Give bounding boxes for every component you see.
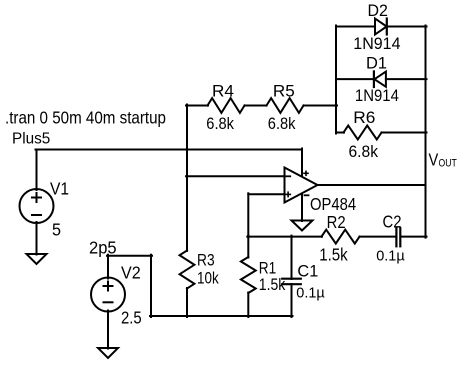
wire node A vertical (R4/R3/inverting input) xyxy=(186,105,188,252)
svg-text:R6: R6 xyxy=(353,108,375,127)
svg-text:V1: V1 xyxy=(50,179,69,199)
wire op-amp V+ drop xyxy=(301,149,303,176)
ground (V1) xyxy=(27,254,47,264)
resistor R1 xyxy=(241,257,256,293)
svg-text:R2: R2 xyxy=(327,212,346,232)
svg-text:.tran 0 50m 40m startup: .tran 0 50m 40m startup xyxy=(5,108,166,128)
svg-text:R3: R3 xyxy=(197,251,215,270)
wire V1 bottom lead xyxy=(36,222,38,255)
wire R4 left xyxy=(186,105,208,107)
svg-text:2p5: 2p5 xyxy=(89,238,117,258)
wire non-inverting drop xyxy=(247,193,249,237)
diode D1 xyxy=(374,71,386,87)
wire D1 right xyxy=(386,78,427,80)
svg-text:1.5k: 1.5k xyxy=(319,245,348,265)
wire VOUT vertical xyxy=(425,26,427,238)
wire D2 right xyxy=(387,26,427,28)
wire V1 top lead xyxy=(36,150,38,191)
wire C1 bottom lead xyxy=(291,284,293,317)
svg-text:1.5k: 1.5k xyxy=(259,275,286,294)
svg-text:R4: R4 xyxy=(212,81,234,100)
resistor R6 xyxy=(344,126,382,140)
wire R2 left segment xyxy=(247,236,322,238)
svg-text:6.8k: 6.8k xyxy=(349,142,379,161)
wire bottom rail xyxy=(150,315,293,317)
wire R1 top lead xyxy=(247,236,249,258)
wire R3 bottom lead xyxy=(186,288,188,317)
svg-text:0.1µ: 0.1µ xyxy=(376,248,405,265)
wire D1 left xyxy=(336,78,374,80)
wire R5 right xyxy=(304,105,338,107)
svg-text:OP484: OP484 xyxy=(310,194,356,214)
op-amp U1 OP484 xyxy=(285,168,318,203)
ground (V2) xyxy=(98,348,118,358)
wire op-amp output xyxy=(317,184,426,186)
svg-text:Plus5: Plus5 xyxy=(12,131,50,148)
svg-text:D1: D1 xyxy=(366,54,387,73)
svg-text:0.1µ: 0.1µ xyxy=(296,285,325,302)
wire C2 right segment xyxy=(401,236,426,238)
wire diode box left vertical xyxy=(335,26,337,134)
wire V2 top lead xyxy=(107,255,109,279)
voltage source V1 xyxy=(20,189,54,223)
resistor R4 xyxy=(208,98,245,113)
wire 2p5 horizontal xyxy=(107,255,152,257)
svg-text:5: 5 xyxy=(52,220,61,240)
svg-text:V: V xyxy=(429,150,439,170)
wire R1 bottom lead xyxy=(247,293,249,318)
wire 2p5 drop xyxy=(150,255,152,317)
svg-text:R5: R5 xyxy=(273,81,295,100)
capacitor C1 xyxy=(282,279,301,285)
wire R4-R5 xyxy=(245,105,267,107)
svg-text:2.5: 2.5 xyxy=(121,308,142,328)
wire op-amp V- lead xyxy=(301,195,303,222)
capacitor C2 xyxy=(396,228,400,246)
wire V2 bottom lead xyxy=(107,311,109,349)
diode D2 xyxy=(375,19,387,35)
svg-text:D2: D2 xyxy=(368,1,388,20)
svg-text:V2: V2 xyxy=(121,263,141,283)
voltage source V2 xyxy=(91,278,125,312)
wire Plus5 rail xyxy=(36,149,303,151)
wire inverting input xyxy=(186,175,285,177)
svg-text:OUT: OUT xyxy=(439,158,458,170)
wire C1 top lead xyxy=(291,236,293,279)
resistor R3 xyxy=(180,251,195,289)
svg-text:C1: C1 xyxy=(297,262,318,281)
wire D2 left xyxy=(336,26,375,28)
wire R6 right xyxy=(382,132,427,134)
wire non-inverting input xyxy=(248,193,284,195)
resistor R5 xyxy=(267,98,304,113)
svg-text:1N914: 1N914 xyxy=(355,86,399,105)
svg-text:6.8k: 6.8k xyxy=(268,114,296,133)
svg-text:6.8k: 6.8k xyxy=(206,114,234,133)
svg-text:C2: C2 xyxy=(383,211,402,231)
svg-text:10k: 10k xyxy=(197,269,219,288)
wire R2-C2 segment xyxy=(360,236,396,238)
ground (op-amp V-) xyxy=(292,221,313,231)
resistor R2 xyxy=(322,230,360,244)
svg-text:1N914: 1N914 xyxy=(353,34,400,53)
wire R6 left xyxy=(336,132,344,134)
